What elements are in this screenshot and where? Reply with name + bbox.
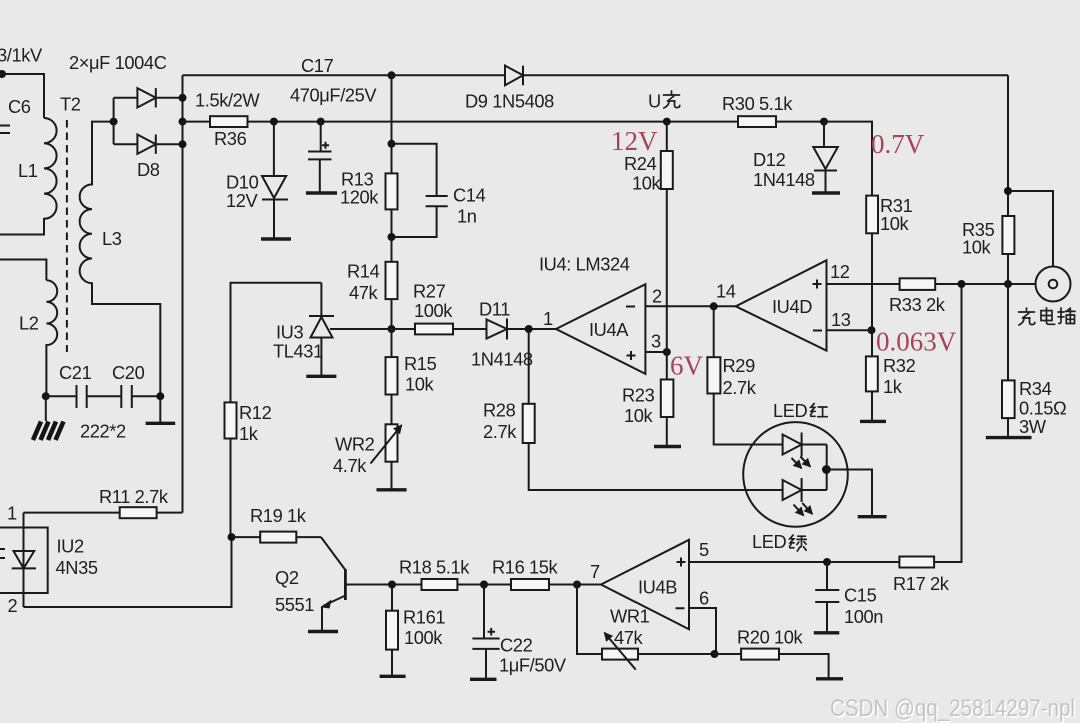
resistor R35 10k (1002, 216, 1014, 254)
svg-text:R20 10k: R20 10k (737, 627, 804, 648)
node: R18/R16/C22 (480, 581, 488, 589)
svg-text:R36: R36 (214, 128, 247, 149)
resistor R34 0.15ohm 3W (1002, 380, 1015, 418)
svg-text:C14: C14 (453, 185, 486, 206)
svg-text:12V: 12V (611, 126, 658, 156)
svg-text:WR2: WR2 (335, 434, 375, 455)
capacitor C6 (plates, cut at edge) (0, 126, 10, 134)
svg-text:10k: 10k (624, 405, 654, 426)
node: D10 tap (270, 118, 278, 126)
svg-text:100n: 100n (844, 606, 883, 627)
svg-text:12: 12 (830, 261, 850, 282)
node: pin7 / WR1 (573, 581, 581, 589)
resistor R14 47k (391, 237, 393, 262)
node: R35/R34 junction (1004, 280, 1012, 288)
pin 3 wire (645, 351, 666, 353)
op-amp IU4D (736, 260, 827, 350)
svg-text:L2: L2 (19, 313, 39, 334)
node: C20 right (156, 392, 164, 400)
svg-text:4.7k: 4.7k (333, 455, 367, 476)
svg-text:10k: 10k (632, 173, 662, 194)
resistor R17 2k (827, 561, 899, 563)
pin 6 wire (689, 608, 716, 654)
svg-text:IU2: IU2 (57, 536, 84, 557)
svg-text:6V: 6V (670, 351, 704, 381)
resistor R29 2.7k (713, 306, 715, 357)
svg-text:R11 2.7k: R11 2.7k (99, 486, 169, 507)
svg-text:IU4: LM324: IU4: LM324 (539, 254, 630, 275)
svg-text:3: 3 (651, 331, 661, 352)
node: pin5/C15/R17 (823, 558, 831, 566)
svg-text:R14: R14 (347, 261, 380, 282)
svg-text:IU4A: IU4A (589, 319, 629, 340)
svg-text:D8: D8 (137, 159, 160, 180)
svg-text:C20: C20 (112, 362, 145, 383)
svg-text:D11: D11 (479, 299, 510, 320)
resistor R18 5.1k (392, 584, 422, 586)
node: bus top diode (179, 94, 187, 102)
svg-text:1k: 1k (883, 376, 903, 397)
svg-text:R18 5.1k: R18 5.1k (399, 557, 470, 578)
svg-text:12V: 12V (226, 190, 259, 211)
svg-text:222*2: 222*2 (80, 421, 126, 442)
node: D11/R28/pin1 (525, 325, 533, 333)
svg-text:47k: 47k (614, 627, 644, 648)
wire TL431 cathode loop to R12 (231, 283, 322, 403)
svg-text:0.063V: 0.063V (876, 327, 957, 357)
diode D8 upper (114, 97, 138, 99)
svg-text:13: 13 (831, 309, 851, 330)
svg-text:100k: 100k (414, 300, 453, 321)
node: R12/R19/opto junction (228, 533, 236, 541)
svg-text:LED: LED (773, 400, 808, 421)
LED green (bottom) (783, 480, 802, 500)
svg-text:R23: R23 (622, 385, 655, 406)
resistor R161 100k (391, 585, 393, 611)
capacitor C14 1n (392, 144, 448, 237)
inductor L3 (secondary winding) (80, 122, 161, 397)
resistor R27 100k (392, 328, 416, 330)
svg-text:IU3: IU3 (276, 322, 303, 343)
pin 5 wire (689, 561, 827, 563)
wire from input to L1 top (0, 74, 44, 118)
wire D8 anode bus (113, 98, 115, 144)
node: mains input dot (0, 70, 6, 78)
resistor R30 5.1k (738, 116, 776, 127)
potentiometer WR1 47k (577, 585, 602, 655)
svg-text:3W: 3W (1019, 416, 1047, 437)
svg-text:C22: C22 (500, 635, 533, 656)
shunt regulator IU3 TL431 (309, 283, 334, 316)
svg-text:120k: 120k (340, 187, 379, 208)
svg-text:L3: L3 (102, 228, 122, 249)
svg-text:5551: 5551 (275, 594, 314, 615)
pin 2 wire (645, 305, 713, 307)
wire to charge plug (1008, 191, 1053, 267)
capacitor C22 1uF/50V (472, 585, 499, 680)
svg-text:10k: 10k (962, 237, 992, 258)
svg-text:R29: R29 (723, 355, 756, 376)
node: plug branch (1004, 187, 1012, 195)
transistor Q2 5551 (321, 537, 345, 570)
charge plug connector (1036, 267, 1071, 302)
svg-text:D9 1N5408: D9 1N5408 (465, 91, 554, 112)
wire L2 top (0, 260, 46, 281)
node: collector/R18/R161 (388, 581, 396, 589)
resistor R16 15k (511, 579, 549, 590)
svg-text:R161: R161 (403, 607, 445, 628)
node: L2/C21 junction (42, 392, 50, 400)
resistor R12 1k (225, 402, 237, 438)
resistor R33 2k (900, 278, 936, 290)
resistor R11 2.7k (24, 512, 120, 514)
svg-text:R30 5.1k: R30 5.1k (722, 93, 793, 114)
svg-text:R15: R15 (404, 353, 437, 374)
resistor R13 120k (391, 144, 393, 174)
svg-text:7: 7 (590, 561, 600, 582)
resistor R31 10k (866, 196, 878, 234)
node: reference divider node (388, 325, 396, 333)
svg-text:R33 2k: R33 2k (889, 294, 946, 315)
svg-text:R28: R28 (483, 400, 516, 421)
svg-text:1: 1 (7, 503, 17, 524)
zener D10 12V (273, 122, 275, 176)
wire rectifier output bus (down to R11) (182, 75, 184, 512)
svg-text:TL431: TL431 (273, 341, 323, 362)
svg-text:LED: LED (752, 531, 787, 552)
earth ground (hatched) (45, 396, 47, 421)
node: bus bottom diode (179, 140, 187, 148)
svg-text:47k: 47k (349, 282, 379, 303)
capacitor C20 (87, 385, 161, 408)
svg-text:C17: C17 (301, 55, 334, 76)
svg-text:D12: D12 (753, 149, 786, 170)
node: pin6/WR1/R20 (711, 650, 719, 658)
node: pin13/R32 junction (868, 326, 876, 334)
wire top rail drop (1007, 75, 1009, 216)
wire top rail down (391, 75, 393, 144)
svg-text:3/1kV: 3/1kV (0, 45, 43, 66)
wire R30 node to R31 column (824, 122, 872, 196)
wire top rail (left part) (183, 74, 506, 76)
svg-text:R19 1k: R19 1k (250, 505, 307, 526)
transformer core T2 (dashed) (66, 120, 68, 352)
node: C17 tap (317, 118, 325, 126)
svg-text:2: 2 (652, 286, 662, 307)
svg-text:2×μF 1004C: 2×μF 1004C (69, 52, 167, 73)
node: bus rail tap (179, 118, 187, 126)
pin 13 wire (827, 329, 872, 331)
svg-text:14: 14 (716, 281, 736, 302)
svg-text:L1: L1 (18, 160, 38, 181)
svg-text:C21: C21 (59, 362, 92, 383)
svg-text:R17 2k: R17 2k (893, 573, 950, 594)
inductor L2 (46, 280, 57, 396)
svg-text:IU4B: IU4B (638, 577, 677, 598)
potentiometer WR2 4.7k (386, 424, 398, 461)
diode D8 lower (114, 143, 138, 145)
svg-text:470μF/25V: 470μF/25V (290, 85, 377, 106)
node: pin14/R29 (710, 302, 718, 310)
diode D12 1N4148 (823, 122, 825, 147)
diode D9 1N5408 (505, 66, 523, 86)
ground bar below C20 node (159, 396, 161, 423)
diode D11 1N4148 (487, 319, 508, 340)
opto LED (23, 513, 25, 607)
svg-text:R16 15k: R16 15k (492, 557, 559, 578)
resistor R23 10k (666, 352, 668, 380)
optocoupler IU2 4N35 box (0, 528, 48, 594)
label charge plug (chong dian cha) (1019, 308, 1035, 325)
op-amp IU4B (601, 540, 689, 630)
svg-text:U: U (648, 91, 661, 112)
svg-text:0.7V: 0.7V (871, 129, 925, 159)
svg-text:IU4D: IU4D (772, 296, 812, 317)
wire top rail (right part) (523, 74, 1008, 76)
svg-text:1N4148: 1N4148 (471, 349, 533, 370)
resistor R20 10k (715, 653, 742, 655)
node: top rail / R13 tap (388, 71, 396, 79)
svg-text:10k: 10k (880, 213, 910, 234)
pin 12 wire (827, 283, 900, 285)
svg-text:T2: T2 (60, 94, 81, 115)
resistor R15 10k (391, 329, 393, 357)
svg-text:1: 1 (543, 308, 553, 329)
pin 2 wire (24, 537, 232, 607)
svg-text:2: 2 (8, 595, 18, 616)
svg-text:1k: 1k (239, 423, 259, 444)
svg-text:C15: C15 (844, 585, 877, 606)
wire LED common to ground (826, 470, 872, 517)
node: R30/D12 junction (820, 118, 828, 126)
svg-text:1n: 1n (457, 206, 477, 227)
svg-text:R27: R27 (413, 281, 446, 302)
node: R13/C14 top (388, 140, 396, 148)
svg-text:2.7k: 2.7k (723, 377, 757, 398)
node: L3 top / D8 anodes (110, 118, 118, 126)
LED red (top) (783, 435, 802, 455)
svg-text:WR1: WR1 (610, 606, 650, 627)
pin 14 wire (714, 305, 736, 307)
svg-text:R34: R34 (1019, 378, 1052, 399)
wire TL431 ref to divider node (330, 328, 392, 330)
node: R24 / U-charge tap (663, 118, 671, 126)
svg-text:10k: 10k (405, 374, 435, 395)
svg-text:100k: 100k (404, 627, 443, 648)
svg-text:1μF/50V: 1μF/50V (499, 655, 567, 676)
node: pin3/R23/R24 (663, 348, 671, 356)
svg-text:2.7k: 2.7k (483, 421, 517, 442)
resistor R19 1k (232, 536, 261, 538)
op-amp IU4A (556, 284, 645, 374)
node: R13/C14 bottom (388, 233, 396, 241)
svg-text:Q2: Q2 (275, 567, 299, 588)
svg-text:R32: R32 (883, 355, 916, 376)
capacitor C21 (46, 385, 87, 408)
inductor L1 (primary winding) (0, 118, 57, 235)
svg-text:C6: C6 (8, 96, 31, 117)
capacitor C17 470uF/25V (308, 122, 332, 193)
node: R33/R17 column (958, 280, 966, 288)
capacitor C15 100n (815, 562, 839, 633)
wire 12V rail (183, 121, 211, 123)
svg-text:R24: R24 (624, 153, 657, 174)
svg-text:1N4148: 1N4148 (753, 169, 815, 190)
svg-text:1.5k/2W: 1.5k/2W (195, 90, 260, 111)
svg-text:CSDN @qq_25814297-npl: CSDN @qq_25814297-npl (830, 695, 1075, 722)
resistor R36 1.5k/2W (210, 116, 248, 127)
svg-text:6: 6 (699, 588, 709, 609)
svg-text:4N35: 4N35 (56, 557, 98, 578)
resistor R28 2.7k (528, 329, 530, 404)
resistor R32 1k (866, 356, 878, 391)
LED package circle (743, 422, 848, 527)
resistor R24 10k (666, 122, 668, 151)
svg-text:R12: R12 (239, 402, 272, 423)
svg-text:5: 5 (699, 539, 709, 560)
node: LED common (822, 465, 831, 474)
